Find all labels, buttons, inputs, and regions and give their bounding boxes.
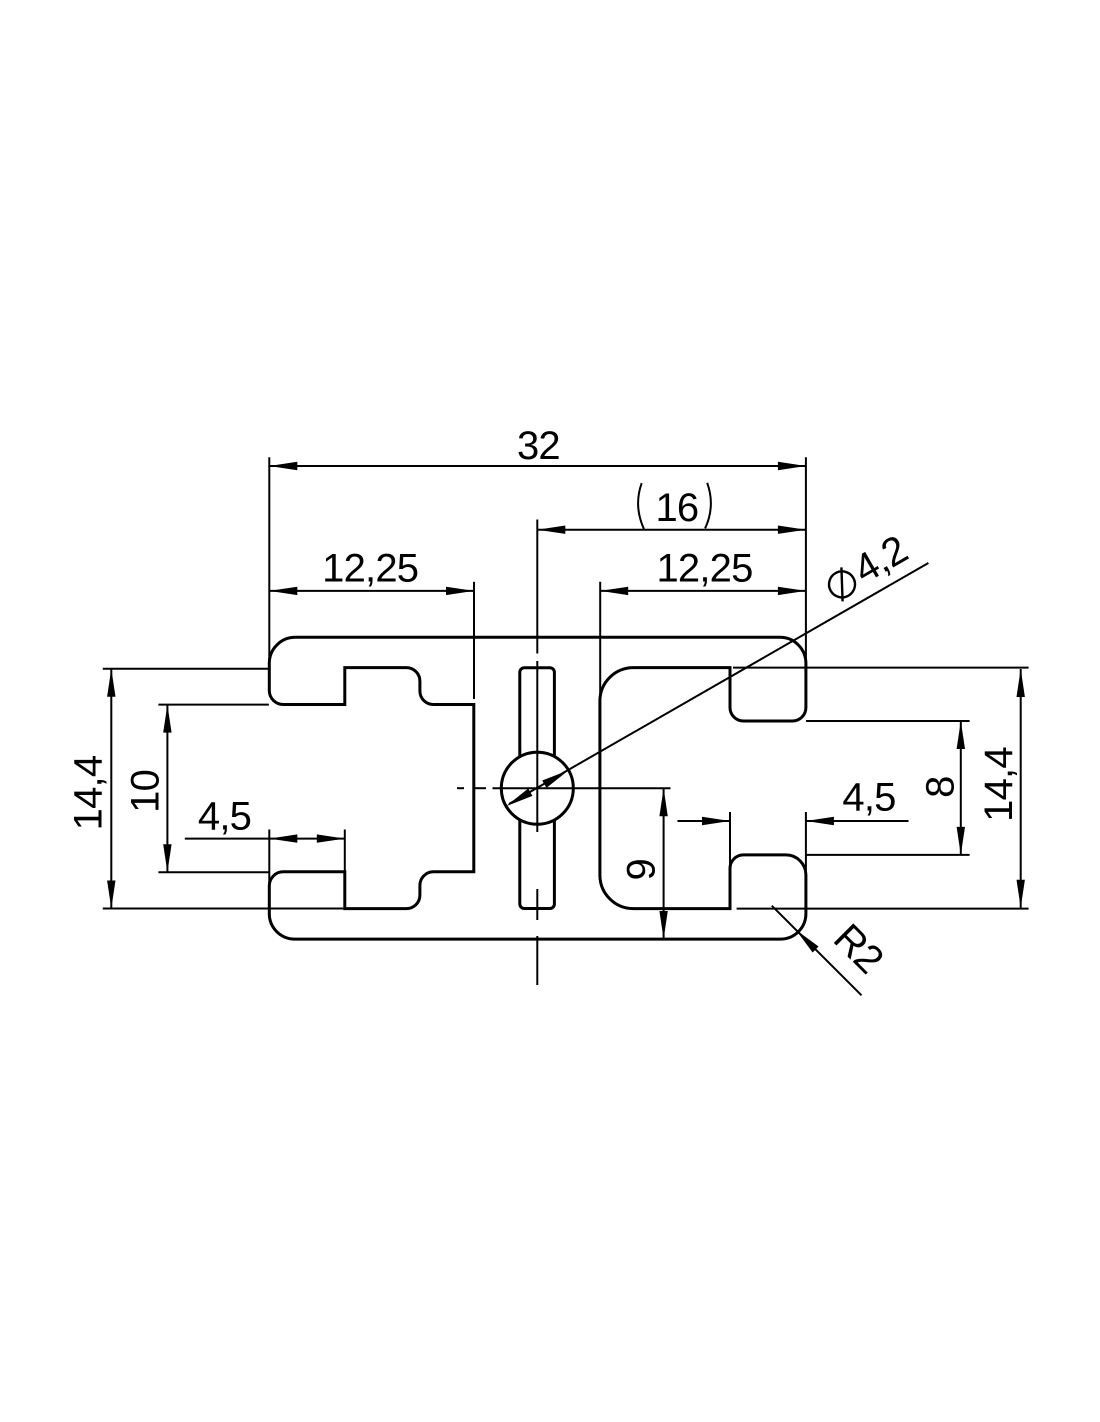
svg-text:4,5: 4,5 <box>842 776 895 820</box>
hole circle diameter 4.2 <box>501 752 573 824</box>
leader diameter arrow upper <box>542 770 568 788</box>
svg-text:14,4: 14,4 <box>977 747 1021 822</box>
svg-text:16: 16 <box>655 486 698 530</box>
dimension 8 arrow top <box>957 721 965 749</box>
vertical centerline <box>536 661 538 985</box>
central web tab <box>520 668 555 909</box>
dimension 14,4 right arrow bottom <box>1017 880 1025 908</box>
dimension 9 arrow top <box>659 788 667 816</box>
leader diameter arrow lower <box>506 789 532 807</box>
svg-text:9: 9 <box>619 859 663 880</box>
dimension 32 lines <box>269 457 806 664</box>
dimension 8 lines <box>806 721 970 855</box>
dimension 32 arrow right <box>778 462 806 470</box>
dimension 4,5 left arrow right <box>317 834 345 842</box>
svg-text:32: 32 <box>517 424 560 468</box>
diameter 4,2 label <box>819 527 915 608</box>
dimension 32 arrow left <box>269 462 297 470</box>
dimension 10 lines <box>158 705 269 873</box>
dimension 8 arrow bottom <box>957 827 965 855</box>
dimension 10 arrow bottom <box>163 844 171 872</box>
dimension (16) right parenthesis <box>705 483 711 529</box>
dimension 14,4 left lines <box>103 669 345 909</box>
profile outline: 32x18 extrusion cross-section, left cross-slot and right T-slot <box>269 637 806 939</box>
dimension 12,25 left arrow right <box>446 587 474 595</box>
svg-text:10: 10 <box>123 770 167 813</box>
dimension 4,5 right arrow left <box>702 817 730 825</box>
leader line R2 <box>772 906 862 996</box>
dimension 14,4 left arrow bottom <box>107 881 115 909</box>
horizontal centerline <box>457 787 671 789</box>
leader R2 arrow <box>796 930 819 953</box>
dimension 12,25 left lines <box>269 582 474 699</box>
dimension 14,4 right arrow top <box>1017 669 1025 697</box>
dimension 4,5 left lines <box>185 830 345 888</box>
dimension 4,5 left arrow left <box>269 834 297 842</box>
dimension 12,25 right arrow left <box>600 587 628 595</box>
dimension 9 line <box>663 788 665 939</box>
svg-text:4,5: 4,5 <box>198 795 251 839</box>
dimension 12,25 left arrow left <box>269 587 297 595</box>
svg-text:14,4: 14,4 <box>67 755 111 830</box>
dimension 9 arrow bottom <box>659 911 667 939</box>
dimension 10 arrow top <box>163 705 171 733</box>
dimension 4,5 right arrow right <box>806 817 834 825</box>
svg-text:8: 8 <box>919 776 963 797</box>
dimension 12,25 right arrow right <box>778 587 806 595</box>
leader line diameter 4,2 <box>509 563 928 804</box>
svg-text:12,25: 12,25 <box>656 546 752 590</box>
svg-text:12,25: 12,25 <box>322 547 418 591</box>
dimension (16) lines <box>537 520 806 654</box>
dimension 14,4 right lines <box>733 668 1029 909</box>
dimension (16) arrow left <box>537 526 565 534</box>
dimension 14,4 left arrow top <box>107 669 115 697</box>
dimension 12,25 right lines <box>600 582 806 700</box>
dimension (16) left parenthesis <box>638 483 644 529</box>
dimension 4,5 right lines <box>678 812 909 871</box>
dimension (16) arrow right <box>778 526 806 534</box>
